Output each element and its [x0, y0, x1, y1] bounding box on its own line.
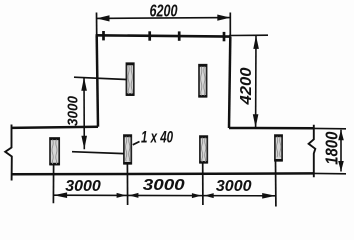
- svg-text:1 x 40: 1 x 40: [141, 128, 173, 147]
- svg-text:1800: 1800: [322, 132, 341, 165]
- svg-text:3000: 3000: [65, 178, 101, 195]
- svg-text:3000: 3000: [216, 178, 252, 195]
- svg-text:3000: 3000: [143, 175, 185, 193]
- svg-text:4200: 4200: [237, 67, 255, 105]
- svg-text:3000: 3000: [65, 96, 82, 126]
- svg-text:6200: 6200: [149, 1, 177, 21]
